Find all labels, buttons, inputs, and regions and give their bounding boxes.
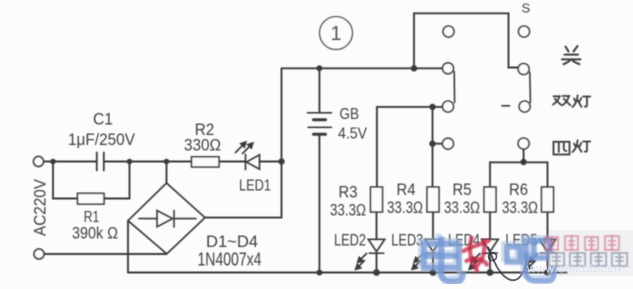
wire top AC line from terminal to C1 xyxy=(44,161,97,163)
svg-text:33.3Ω: 33.3Ω xyxy=(444,199,480,217)
svg-text:390k Ω: 390k Ω xyxy=(72,225,118,243)
svg-text:R5: R5 xyxy=(453,180,472,199)
LED1 diode (points left, cathode bar left) xyxy=(246,155,260,170)
label guan (off) hand-drawn glyph xyxy=(562,46,581,64)
junction node bridge top xyxy=(164,159,170,165)
switch contact L4 xyxy=(443,138,454,149)
switch contact S3 xyxy=(519,101,530,112)
wire bridge right vertex to riser xyxy=(205,162,282,218)
svg-text:33.3Ω: 33.3Ω xyxy=(387,199,423,217)
watermark black swoosh xyxy=(488,247,527,280)
wire LED3 to bottom rail xyxy=(432,253,434,272)
junction node S4 tee xyxy=(520,159,526,165)
wire R5 bottom to LED4 xyxy=(489,212,491,239)
switch contact S2 xyxy=(518,64,529,75)
svg-text:R1: R1 xyxy=(84,209,100,226)
svg-text:S: S xyxy=(521,1,530,16)
junction node LED2 rail xyxy=(373,269,380,276)
watermark small circle xyxy=(489,253,497,261)
svg-text:4.5V: 4.5V xyxy=(338,126,368,143)
terminal AC input bottom xyxy=(34,249,44,259)
wire bridge top stem xyxy=(166,162,168,184)
junction node at C1 left xyxy=(50,159,56,165)
wire R3 bottom to LED2 xyxy=(376,212,378,239)
switch contact L2 xyxy=(443,63,454,74)
bridge rectifier D1-D4 diamond xyxy=(128,183,205,254)
wire LED4 to bottom rail xyxy=(489,253,491,272)
svg-text:1μF/250V: 1μF/250V xyxy=(68,131,135,149)
switch contact S1 xyxy=(519,26,530,37)
wire R1 branch left drop xyxy=(53,162,78,199)
junction node LED5 rail xyxy=(544,269,551,276)
junction node top route tap xyxy=(411,65,417,71)
watermark big blue glyph ba xyxy=(504,238,554,281)
LED4 emission arrows xyxy=(469,254,480,270)
svg-text:LED1: LED1 xyxy=(239,178,271,195)
LED4 diode xyxy=(482,239,498,253)
switch contact S4 xyxy=(518,138,529,149)
LED2 emission arrows xyxy=(356,254,367,270)
LED3 diode xyxy=(425,239,441,253)
LED1 emission arrows xyxy=(236,142,253,154)
watermark big blue glyph dian (electric) xyxy=(421,234,463,282)
svg-text:1: 1 xyxy=(330,23,341,45)
label shuang-deng (two lights) hand-drawn glyphs xyxy=(553,95,590,107)
label si-deng (four lights) hand-drawn glyphs xyxy=(554,140,591,154)
wire R1 branch right rise xyxy=(104,162,130,199)
resistor R5 xyxy=(484,187,496,212)
resistor R4 xyxy=(427,187,439,212)
svg-text:330Ω: 330Ω xyxy=(184,137,221,155)
junction node A LED1 output xyxy=(278,158,284,164)
wire riser node A to top rail xyxy=(281,68,283,161)
battery GB plates xyxy=(308,113,332,135)
svg-text:GB: GB xyxy=(340,106,360,123)
wire bottom AC line to bridge bottom vertex xyxy=(44,253,167,255)
junction node at C1 right xyxy=(127,159,133,165)
svg-text:AC220V: AC220V xyxy=(32,179,50,236)
junction node L3 tap xyxy=(429,104,435,110)
watermark red text row xyxy=(545,236,619,250)
svg-text:R4: R4 xyxy=(397,180,416,199)
svg-text:33.3Ω: 33.3Ω xyxy=(330,202,366,220)
capacitor C1 xyxy=(97,153,104,171)
watermark panel tint xyxy=(548,230,633,276)
wire bridge left vertex drop to bottom rail xyxy=(127,221,129,273)
resistor R6 xyxy=(542,187,554,212)
wire R3 top to contact L3 xyxy=(377,107,442,187)
wire top rail xyxy=(282,67,443,69)
wire R6 bottom to LED5 xyxy=(547,212,549,239)
bridge inner diode xyxy=(139,210,196,227)
wire S4 bottom to R5/R6 tee xyxy=(523,149,525,162)
switch slider bar right column xyxy=(529,72,532,102)
junction node battery top xyxy=(316,65,322,71)
junction node LED4 rail xyxy=(487,269,494,276)
LED5 emission arrows xyxy=(527,254,538,270)
circled figure number 1 xyxy=(320,17,353,50)
terminal AC input top xyxy=(34,157,44,167)
switch position dash left of S3 xyxy=(502,105,510,107)
svg-text:R6: R6 xyxy=(509,180,528,199)
svg-text:LED2: LED2 xyxy=(334,231,366,250)
svg-text:D1~D4: D1~D4 xyxy=(206,232,258,251)
wire dot to contact L4 xyxy=(433,143,443,145)
wire R2 to LED1 anode-bar xyxy=(219,161,245,163)
resistor R1 xyxy=(78,193,105,204)
wire battery bottom to bottom rail xyxy=(318,135,320,273)
watermark gray text row xyxy=(549,253,627,266)
resistor R2 xyxy=(192,157,220,167)
junction node L4 tap xyxy=(429,141,435,147)
junction node battery bottom rail xyxy=(316,270,322,276)
junction node LED3 rail xyxy=(430,269,437,276)
wire LED1 to node A xyxy=(260,161,282,163)
svg-text:33.3Ω: 33.3Ω xyxy=(502,199,538,217)
switch contact L3 xyxy=(443,101,454,112)
switch slider bar left column xyxy=(453,72,455,103)
wire top route from rail to switch pole S2 xyxy=(414,13,518,68)
wire contact chain L3-L4 down to R4 xyxy=(432,107,434,187)
LED3 emission arrows xyxy=(412,254,423,270)
wire R4 bottom to LED3 xyxy=(432,212,434,239)
resistor R3 xyxy=(371,187,383,212)
svg-text:1N4007x4: 1N4007x4 xyxy=(198,250,262,270)
switch contact L1 xyxy=(443,26,454,37)
svg-text:C1: C1 xyxy=(93,110,113,129)
wire battery top feed xyxy=(318,68,320,112)
svg-text:R3: R3 xyxy=(339,183,358,202)
wire C1 to R2 xyxy=(105,161,192,163)
wire R5-R6 tee bar xyxy=(490,162,548,187)
LED5 diode xyxy=(539,239,555,253)
wire bottom rail xyxy=(128,272,567,274)
svg-text:www.elecbbs.cn: www.elecbbs.cn xyxy=(526,262,621,276)
wire LED2 to bottom rail xyxy=(376,253,378,272)
LED2 diode xyxy=(368,239,384,253)
watermark red logo strokes xyxy=(462,236,490,272)
wire LED5 to bottom rail xyxy=(547,253,549,272)
